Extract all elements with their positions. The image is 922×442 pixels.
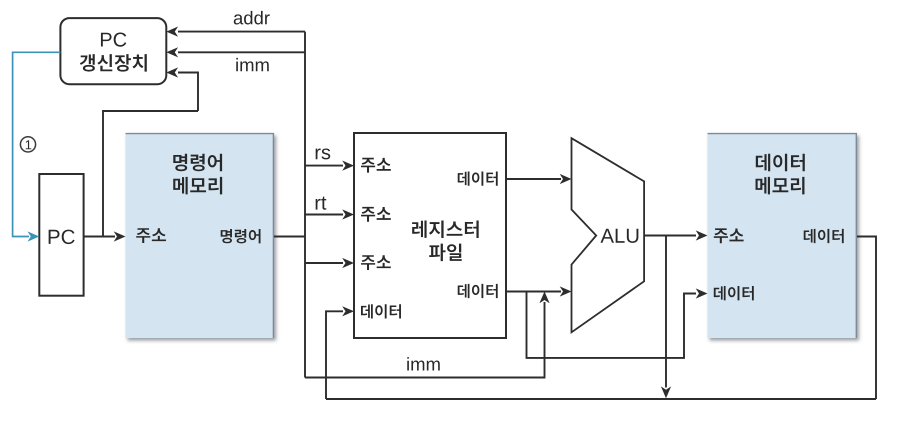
wire: write-back bus (bottom)	[326, 398, 876, 400]
wire: store data path RF to DM	[527, 292, 697, 358]
arrowhead down onto write-back line	[661, 386, 671, 398]
wire: teal PC-update feedback loop (1)	[13, 52, 61, 236]
block: register file (레지스터 파일)	[354, 133, 506, 338]
arrowhead into RF 주소 2	[342, 209, 354, 219]
wire: ALU result down to write-back line	[665, 236, 667, 388]
net label: rs	[316, 148, 331, 159]
node: circled 1 marker	[20, 137, 35, 152]
arrowhead into DM 데이터 (write)	[696, 288, 708, 298]
arrowhead into ALU input 1	[560, 174, 572, 184]
wire: imm operand line (lower)	[305, 302, 545, 378]
pin label: 데이터 (RF read data 1)	[458, 171, 498, 185]
wire: RF read data 2 to ALU	[506, 291, 561, 293]
wire: rt field to RF read address 2	[305, 214, 343, 216]
label: 명령어 (title line 1)	[173, 154, 222, 172]
label: PC (title line 1)	[101, 33, 126, 47]
wire: write-back data into RF	[326, 311, 343, 399]
block: instruction memory (명령어 메모리)	[126, 133, 275, 338]
label: PC	[49, 230, 75, 245]
pin label: 주소 (RF read addr 2)	[361, 207, 391, 222]
pin label: 주소 (RF read addr 1)	[361, 158, 391, 173]
arrowhead into PC update unit (pc)	[166, 67, 178, 77]
arrowhead into DM 주소	[696, 230, 708, 240]
block: PC register	[39, 174, 83, 296]
block: PC update unit (PC 갱신장치)	[60, 18, 166, 84]
arrowhead into IM 주소	[114, 231, 126, 241]
arrowhead into PC (teal)	[28, 231, 40, 241]
net label: imm (upper)	[236, 58, 268, 71]
label: 메모리 (title line 2)	[756, 177, 805, 195]
net label: addr	[234, 11, 270, 25]
wire: DM read data to write-back bus	[857, 237, 876, 400]
wire: second line into PC update unit	[178, 51, 305, 53]
arrowhead into RF 주소 3	[342, 258, 354, 268]
block: data memory (데이터 메모리)	[708, 133, 858, 338]
label: 데이터 (title line 1)	[756, 154, 805, 172]
wire: IM instruction output to trunk	[274, 236, 305, 238]
block: ALU	[572, 138, 645, 332]
wire: rs field to RF read address 1	[305, 165, 343, 167]
label: 파일 (title line 2)	[429, 244, 462, 261]
label: 갱신장치 (title line 2)	[80, 54, 147, 71]
wire: addr line into PC update unit	[178, 31, 305, 33]
wire: rd field to RF write address	[305, 262, 343, 264]
arrowhead into RF 데이터 (write data)	[342, 306, 354, 316]
wire: branch from PC address line up into PC update unit	[178, 73, 198, 112]
pin label: 주소 (DM address in)	[714, 228, 744, 243]
arrowhead into PC update unit (addr)	[166, 27, 178, 37]
arrowhead into PC update unit (imm)	[166, 47, 178, 57]
label: 레지스터 (title line 1)	[412, 220, 479, 238]
pin label: 데이터 (RF read data 2)	[458, 284, 498, 298]
arrowhead up into ALU operand wire (imm)	[539, 292, 549, 304]
pin label: 주소 (IM address in)	[136, 228, 166, 243]
wire: ALU result to DM address	[644, 235, 696, 237]
pin label: 데이터 (DM read data out)	[804, 229, 844, 243]
pin label: 데이터 (DM write data in)	[714, 286, 754, 300]
wire: vertical branch from PC output up	[103, 111, 198, 237]
label: ALU	[600, 229, 638, 243]
wire: PC to instruction memory address	[84, 236, 115, 238]
wire: RF read data 1 to ALU	[506, 178, 561, 180]
net label: rt	[316, 197, 327, 210]
pin label: 명령어 (IM instruction out)	[221, 229, 261, 243]
pin label: 주소 (RF write addr)	[361, 255, 391, 270]
arrowhead into RF 주소 1	[342, 161, 354, 171]
net label: imm (lower)	[407, 357, 439, 370]
label: 메모리 (title line 2)	[173, 177, 222, 195]
wire: instruction field trunk (vertical)	[304, 32, 306, 378]
pin label: 데이터 (RF write data)	[361, 304, 401, 318]
arrowhead into ALU input 2	[560, 286, 572, 296]
label: 1 inside circle	[26, 140, 32, 149]
